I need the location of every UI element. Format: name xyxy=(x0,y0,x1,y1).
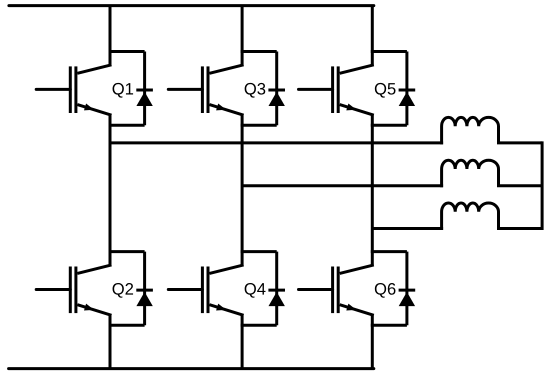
transistor Q3 (IGBT) xyxy=(168,65,243,115)
transistor Q4 (IGBT) xyxy=(168,265,243,315)
wire: Q2 collector top horizontal xyxy=(109,250,145,253)
label Q6 xyxy=(375,283,396,298)
wire: Q6 collector top horizontal xyxy=(371,250,407,253)
wire: Q5 emitter bottom horizontal xyxy=(371,124,407,127)
wire: Q3 emitter bottom horizontal xyxy=(241,124,277,127)
diode D6 xyxy=(399,252,416,326)
wire: Q2 emitter to DC- rail xyxy=(109,315,112,368)
inductor L1 xyxy=(442,117,542,144)
wire: Q2 emitter bottom horizontal xyxy=(109,324,145,327)
diode D3 xyxy=(268,52,285,126)
wire: neutral bus (star point) xyxy=(541,141,544,230)
wire: phase node column Q5/Q6 xyxy=(371,115,374,265)
diode D4 xyxy=(268,252,285,326)
wire: DC bus positive rail xyxy=(9,4,374,7)
wire: phase B rail xyxy=(242,184,443,187)
transistor Q5 (IGBT) xyxy=(299,65,374,115)
wire: DC+ feed to Q5 collector xyxy=(371,6,374,65)
wire: DC bus negative rail xyxy=(9,367,374,370)
wire: phase node column Q3/Q4 xyxy=(241,115,244,265)
wire: Q1 collector top horizontal xyxy=(109,50,145,53)
wire: Q4 emitter to DC- rail xyxy=(241,315,244,368)
wire: Q4 emitter bottom horizontal xyxy=(241,324,277,327)
diode D2 xyxy=(136,252,153,326)
wire: phase C rail xyxy=(372,227,443,230)
wire: Q4 collector top horizontal xyxy=(241,250,277,253)
wire: Q5 collector top horizontal xyxy=(371,50,407,53)
label Q4 xyxy=(245,283,266,298)
wire: DC+ feed to Q3 collector xyxy=(241,6,244,65)
diode D1 xyxy=(136,52,153,126)
wire: phase A rail xyxy=(110,141,443,144)
wire: Q3 collector top horizontal xyxy=(241,50,277,53)
transistor Q1 (IGBT) xyxy=(36,65,111,115)
label Q1 xyxy=(113,83,134,98)
label Q5 xyxy=(375,83,396,98)
label Q2 xyxy=(113,283,134,298)
label Q3 xyxy=(245,83,266,98)
transistor Q2 (IGBT) xyxy=(36,265,111,315)
wire: DC+ feed to Q1 collector xyxy=(109,6,112,65)
diode D5 xyxy=(399,52,416,126)
wire: Q1 emitter bottom horizontal xyxy=(109,124,145,127)
wire: phase node column Q1/Q2 xyxy=(109,115,112,265)
inductor L2 xyxy=(442,160,542,187)
wire: Q6 emitter to DC- rail xyxy=(371,315,374,368)
transistor Q6 (IGBT) xyxy=(299,265,374,315)
wire: Q6 emitter bottom horizontal xyxy=(371,324,407,327)
inductor L3 xyxy=(442,203,542,230)
